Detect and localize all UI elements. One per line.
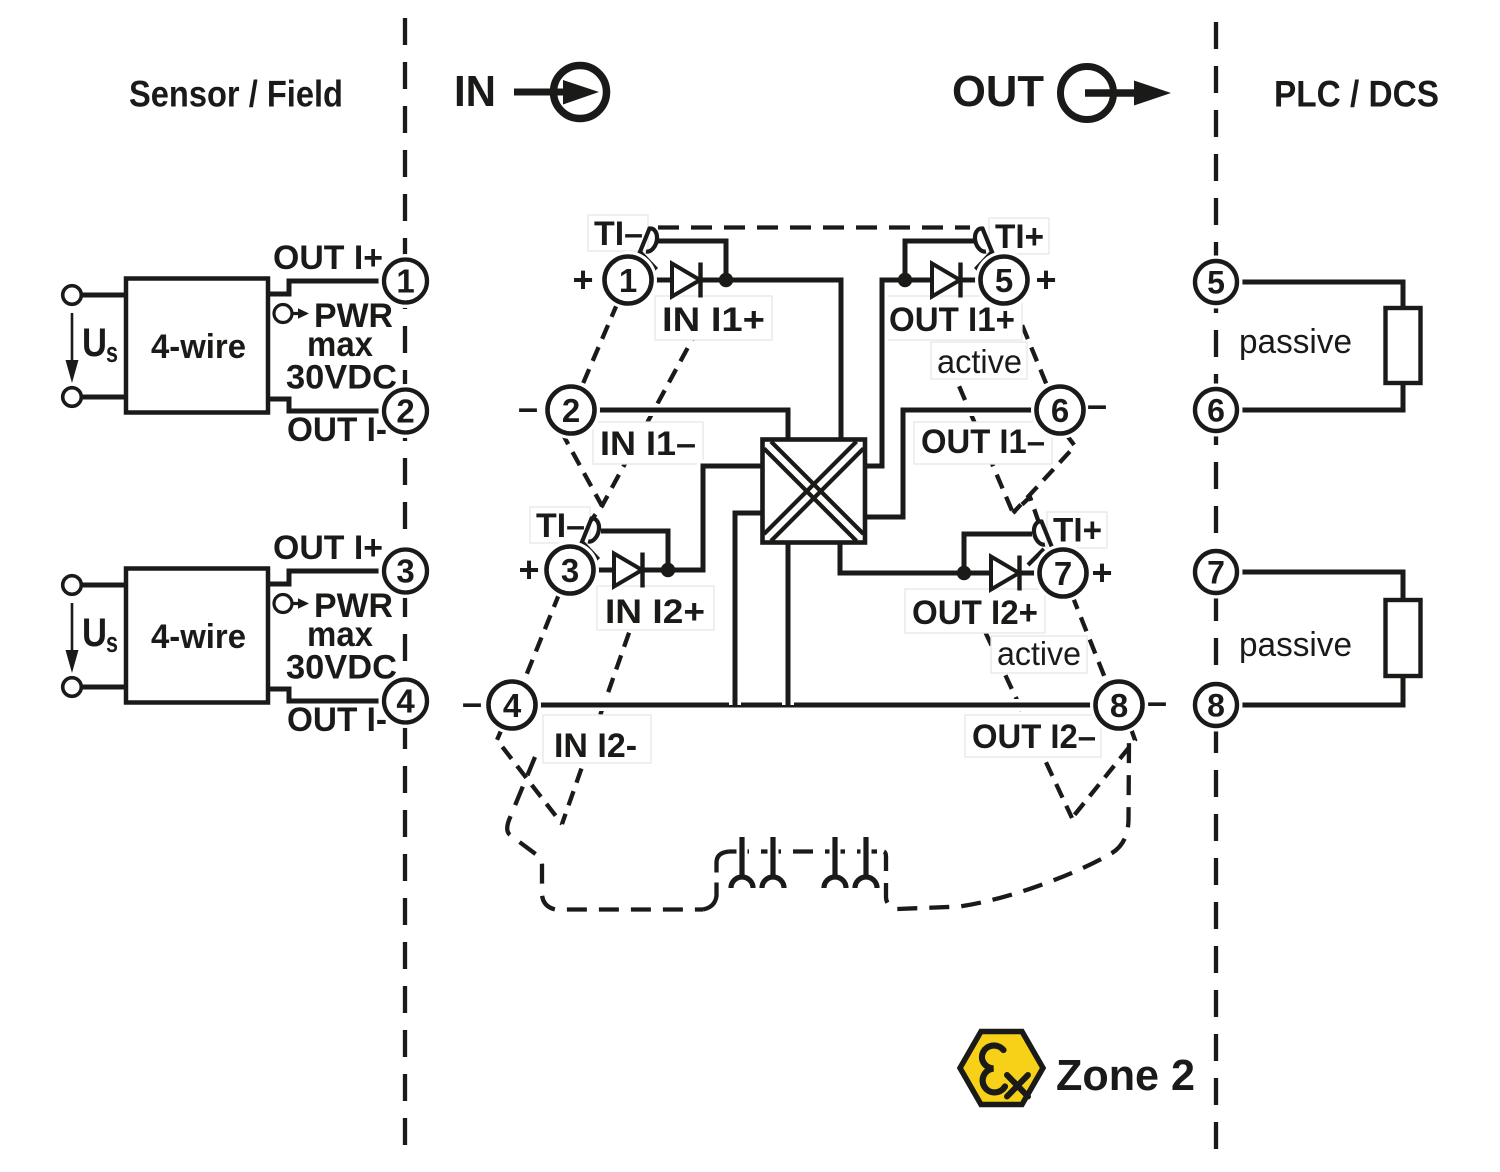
sensor terminal circle top 1 <box>63 286 82 305</box>
wire 4-wire box2 to terminal 3 <box>267 571 386 584</box>
svg-text:OUT I-: OUT I- <box>287 411 387 449</box>
svg-text:4: 4 <box>396 683 415 720</box>
terminal circle 6 PLC <box>1190 384 1243 437</box>
dashed link terminal 1 to 2 <box>582 303 618 387</box>
terminal circle 3 left column <box>379 544 433 598</box>
wire sensor2 bottom lead <box>81 681 128 693</box>
svg-text:TI–: TI– <box>594 215 643 253</box>
wire PLC loop terminal 7 to resistor <box>1237 572 1403 602</box>
wire TI+ tap 5 <box>905 241 974 276</box>
dashed link IN I1+ label to TI- tap <box>602 327 699 506</box>
svg-text:OUT I2–: OUT I2– <box>972 718 1096 756</box>
terminal circle 4 module <box>483 676 541 734</box>
dashed link IN I2+ label to lower vertex <box>562 610 637 824</box>
svg-text:OUT I-: OUT I- <box>287 701 387 739</box>
svg-text:7: 7 <box>1207 555 1225 591</box>
dashed link terminal 5 to 6 <box>1013 303 1048 388</box>
isolator barrier box <box>763 440 866 543</box>
label box IN I1- <box>593 422 703 464</box>
label box active 2 <box>991 636 1087 673</box>
label box TI+ 2 <box>1047 512 1107 548</box>
wire TI+ tap 7 <box>964 534 1032 569</box>
module outline connector row top dashed <box>729 849 884 853</box>
dashed link terminal 4 to lower vertex <box>497 726 562 824</box>
svg-text:passive: passive <box>1239 323 1352 361</box>
svg-text:–: – <box>462 682 482 723</box>
svg-text:4-wire: 4-wire <box>151 328 246 366</box>
svg-text:6: 6 <box>1051 392 1069 429</box>
terminal circle 2 left column <box>379 384 433 438</box>
svg-text:30VDC: 30VDC <box>286 359 397 397</box>
wire TI- tap 1 <box>658 241 726 276</box>
svg-text:+: + <box>572 259 593 300</box>
svg-text:1: 1 <box>619 262 637 299</box>
diode D5 OUT I1+ <box>932 263 961 298</box>
OUT flow symbol <box>1061 67 1172 120</box>
terminal circle 4 left column <box>379 674 433 728</box>
svg-text:8: 8 <box>1110 687 1128 724</box>
svg-text:OUT I+: OUT I+ <box>273 529 383 567</box>
svg-text:active: active <box>937 343 1022 380</box>
dashed link OUT I1+ label to TI+ tap <box>931 320 1013 513</box>
sensor terminal circle bottom 1 <box>63 388 82 407</box>
svg-text:TI–: TI– <box>536 507 585 545</box>
terminal circle 8 module <box>1090 676 1148 734</box>
connector pin 4 <box>855 837 877 888</box>
terminal circle 3 module <box>541 541 599 599</box>
diode D1 IN I1+ <box>672 263 701 298</box>
svg-text:3: 3 <box>396 553 414 590</box>
wire 4-wire box2 to terminal 4 <box>267 689 386 701</box>
svg-text:Zone 2: Zone 2 <box>1056 1051 1195 1100</box>
svg-text:–: – <box>518 387 538 428</box>
svg-text:IN I2+: IN I2+ <box>605 593 705 631</box>
svg-text:OUT: OUT <box>952 67 1044 116</box>
terminal circle 8 PLC <box>1190 679 1243 732</box>
junction dot J7 <box>957 566 971 580</box>
PWR supply symbol 2 <box>274 595 309 613</box>
module outline bottom left dashed <box>507 757 703 910</box>
svg-text:Sensor / Field: Sensor / Field <box>129 74 343 115</box>
terminal circle 7 module <box>1034 544 1092 602</box>
svg-text:active: active <box>997 635 1081 672</box>
dashed link terminal 2 to TI- tap <box>561 431 602 521</box>
svg-text:3: 3 <box>561 552 579 589</box>
svg-text:IN I2-: IN I2- <box>554 727 637 765</box>
label box OUT I1+ <box>882 296 1022 340</box>
svg-text:30VDC: 30VDC <box>286 649 397 687</box>
test tap lever symbol TI- 1 <box>638 228 658 269</box>
load resistor PLC loop 1 <box>1386 308 1421 383</box>
svg-text:1: 1 <box>396 263 414 300</box>
label box OUT I2+ <box>905 589 1045 633</box>
sensor terminal circle bottom 2 <box>63 678 82 697</box>
PWR supply symbol 1 <box>274 305 309 323</box>
svg-text:+: + <box>518 549 539 590</box>
svg-text:TI+: TI+ <box>995 218 1044 256</box>
terminal circle 1 module <box>599 251 657 309</box>
wire isolator to OUT I2+ terminal 7 <box>840 541 1041 573</box>
svg-text:IN I1+: IN I1+ <box>662 301 765 339</box>
svg-text:IN: IN <box>454 67 496 116</box>
Us voltage arrow 2 <box>66 603 79 673</box>
svg-text:PLC / DCS: PLC / DCS <box>1274 74 1439 115</box>
label box active 1 <box>931 342 1027 379</box>
terminal circle 7 PLC <box>1190 546 1243 599</box>
dashed link OUT I2+ label to lower vertex <box>975 610 1072 818</box>
load resistor PLC loop 2 <box>1386 600 1421 676</box>
zone divider PLC/DCS <box>1214 22 1218 1162</box>
svg-text:5: 5 <box>1207 265 1225 301</box>
svg-text:U: U <box>82 321 107 365</box>
dashed link terminal 8 to lower vertex <box>1072 726 1135 818</box>
label box TI+ 1 <box>989 218 1049 254</box>
svg-text:–: – <box>1087 384 1107 425</box>
terminal circle 1 left column <box>379 254 433 308</box>
svg-text:+: + <box>1035 259 1056 300</box>
junction dot J3 <box>661 563 675 577</box>
terminal circle 2 module <box>542 381 600 439</box>
svg-text:U: U <box>82 611 107 655</box>
4-wire transmitter box 2 <box>126 569 268 703</box>
wire isolator to OUT I1- terminal 6 <box>864 410 1038 517</box>
wire riser rail to isolator bottom <box>782 541 794 705</box>
4-wire transmitter box 1 <box>126 279 268 413</box>
label box OUT I1- <box>914 422 1052 464</box>
diode D3 IN I2+ <box>614 553 643 588</box>
wire sensor1 top lead <box>81 289 128 301</box>
terminal circle 6 module <box>1031 381 1089 439</box>
svg-text:OUT I2+: OUT I2+ <box>912 594 1038 632</box>
wire IN I1+ terminal 1 to isolator <box>650 280 841 441</box>
Ex hazardous area logo <box>960 1032 1043 1105</box>
dashed link terminal 3 to 4 <box>524 593 560 682</box>
test tap lever symbol TI- 3 <box>580 518 600 559</box>
wire PLC loop resistor to terminal 8 <box>1237 674 1403 705</box>
svg-text:OUT I1–: OUT I1– <box>921 423 1045 461</box>
svg-text:6: 6 <box>1207 393 1225 429</box>
svg-text:OUT I1+: OUT I1+ <box>889 301 1015 339</box>
svg-text:s: s <box>106 627 118 659</box>
junction dot J5 <box>898 273 912 287</box>
wire sensor1 bottom lead <box>81 391 128 403</box>
module outline top dashed edge <box>658 225 970 229</box>
connector pin 1 <box>731 837 753 888</box>
svg-text:5: 5 <box>995 262 1013 299</box>
svg-text:+: + <box>1091 552 1112 593</box>
label box OUT I2- <box>965 715 1101 757</box>
dashed link terminal 6 to TI+ tap <box>1013 433 1075 523</box>
wire 4-wire box1 to terminal 1 <box>267 281 386 294</box>
sensor terminal circle top 2 <box>63 576 82 595</box>
svg-text:7: 7 <box>1054 555 1072 592</box>
svg-text:s: s <box>106 337 118 369</box>
terminal circle 5 PLC <box>1190 256 1243 309</box>
svg-text:4: 4 <box>503 687 522 724</box>
label box TI- 1 <box>588 215 648 251</box>
Us voltage arrow 1 <box>66 313 79 383</box>
zone divider Sensor/Field <box>403 18 407 1162</box>
wire 4-wire box1 to terminal 2 <box>267 399 386 411</box>
diode D7 OUT I2+ <box>991 556 1020 591</box>
label box IN I2- <box>543 715 651 763</box>
wire isolator to OUT I1+ terminal 5 <box>864 280 982 466</box>
connector pin 2 <box>762 837 784 888</box>
wire TI- tap 3 <box>601 531 668 566</box>
svg-text:2: 2 <box>396 393 414 430</box>
wire IN I1- terminal 2 to isolator <box>593 410 788 441</box>
svg-text:IN I1–: IN I1– <box>600 425 696 463</box>
test tap lever symbol TI+ 7 <box>1028 521 1054 565</box>
svg-text:TI+: TI+ <box>1053 512 1102 550</box>
svg-text:passive: passive <box>1239 626 1352 664</box>
label box IN I2+ <box>597 586 714 630</box>
IN flow symbol <box>514 66 607 119</box>
test tap lever symbol TI+ 5 <box>975 228 995 269</box>
terminal circle 5 module <box>975 251 1033 309</box>
dashed link terminal 7 to 8 <box>1072 595 1107 683</box>
label box TI- 2 <box>530 507 590 543</box>
svg-text:8: 8 <box>1207 688 1225 724</box>
module outline bottom right dashed <box>884 741 1129 909</box>
svg-text:2: 2 <box>562 392 580 429</box>
svg-text:4-wire: 4-wire <box>151 618 246 656</box>
connector pin 3 <box>824 837 846 888</box>
wire PLC loop resistor to terminal 6 <box>1237 381 1403 410</box>
svg-text:OUT I+: OUT I+ <box>273 239 383 277</box>
wire IN I2+ terminal 3 to isolator <box>592 466 763 570</box>
wire PLC loop terminal 5 to resistor <box>1237 282 1403 310</box>
svg-text:–: – <box>1147 681 1167 722</box>
wire IN I2- OUT I2- bottom rail <box>535 699 1097 711</box>
wire riser rail to isolator left <box>735 513 763 705</box>
junction dot J1 <box>719 273 733 287</box>
label box IN I1+ <box>655 296 772 340</box>
wire sensor2 top lead <box>81 579 128 591</box>
